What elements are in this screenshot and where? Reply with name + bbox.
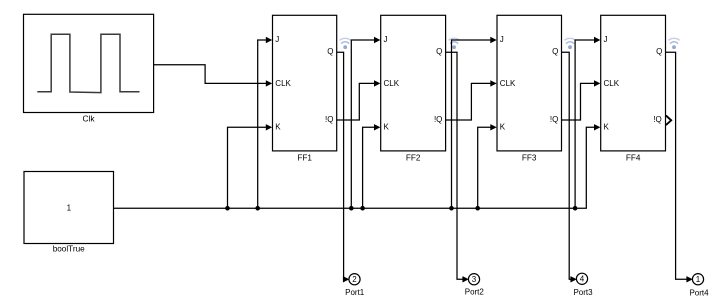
FF4 logging badge — [668, 38, 679, 49]
svg-text:CLK: CLK — [384, 79, 400, 88]
junction dot at x=227.5 — [225, 206, 230, 211]
svg-text:Q: Q — [327, 47, 333, 56]
arrowhead FF2.J — [374, 37, 380, 43]
wire bus tap to FF2.J — [351, 40, 374, 208]
junction dot at x=351.3 — [349, 206, 354, 211]
svg-text:Q: Q — [656, 47, 662, 56]
svg-text:J: J — [275, 35, 279, 44]
svg-text:Q: Q — [552, 47, 558, 56]
FF4 unconnected !Q port chevron — [666, 116, 671, 126]
wire bus tap to FF1.J — [258, 40, 267, 208]
svg-text:K: K — [384, 123, 390, 132]
arrowhead FF3.J — [490, 37, 496, 43]
junction dot at x=451.5 — [449, 206, 454, 211]
arrowhead Port3 — [570, 276, 576, 282]
wire FF1.!Q to FF2.CLK — [337, 83, 375, 120]
wire FF3.Q to Port3 — [562, 52, 571, 279]
wire FF3.!Q to FF4.CLK — [562, 83, 595, 120]
svg-text:FF4: FF4 — [626, 154, 641, 163]
svg-text:Q: Q — [436, 47, 442, 56]
svg-text:K: K — [604, 123, 610, 132]
arrowhead FF4.J — [594, 37, 600, 43]
svg-text:boolTrue: boolTrue — [53, 245, 85, 254]
wire bus tap to FF2.K — [363, 127, 375, 208]
svg-text:1: 1 — [67, 203, 72, 212]
junction dot at x=575.1 — [573, 206, 578, 211]
svg-text:K: K — [500, 123, 506, 132]
arrowhead FF1.J — [266, 37, 272, 43]
arrowhead FF2.K — [374, 124, 380, 130]
junction dot at x=477.7 — [475, 206, 480, 211]
junction dot at x=257.7 — [255, 206, 260, 211]
svg-text:CLK: CLK — [500, 79, 516, 88]
svg-text:K: K — [275, 123, 281, 132]
svg-text:Clk: Clk — [82, 114, 95, 124]
svg-text:1: 1 — [696, 275, 701, 284]
wire FF4.Q to Port4 — [666, 52, 687, 279]
FF3 logging badge — [564, 38, 575, 49]
svg-text:!Q: !Q — [550, 115, 558, 124]
wire bus tap to FF1.K — [228, 127, 267, 208]
arrowhead Port1 — [343, 276, 349, 282]
FF1 logging badge — [340, 38, 351, 49]
svg-text:J: J — [604, 35, 608, 44]
arrowhead Port2 — [462, 276, 468, 282]
svg-text:Port2: Port2 — [465, 288, 485, 297]
svg-text:!Q: !Q — [434, 115, 442, 124]
wire FF2.!Q to FF3.CLK — [446, 83, 491, 120]
svg-text:3: 3 — [472, 275, 477, 284]
FF2 logging badge — [449, 38, 460, 49]
svg-text:FF3: FF3 — [522, 154, 537, 163]
svg-text:CLK: CLK — [275, 79, 291, 88]
source block Clk (pulse generator) — [24, 14, 154, 112]
wire bus tap to FF4.J — [575, 40, 595, 208]
svg-text:CLK: CLK — [604, 79, 620, 88]
svg-text:FF2: FF2 — [406, 154, 421, 163]
wire bus tap to FF3.J — [452, 40, 491, 208]
svg-text:FF1: FF1 — [297, 154, 312, 163]
junction dot at x=362.6 — [360, 206, 365, 211]
arrowhead FF4.CLK — [594, 80, 600, 86]
svg-text:4: 4 — [580, 275, 585, 284]
flip-flop FF1 — [273, 15, 337, 151]
svg-text:J: J — [500, 35, 504, 44]
constant block boolTrue — [24, 172, 114, 244]
flip-flop FF3 — [497, 15, 562, 151]
arrowhead FF3.K — [490, 124, 496, 130]
svg-text:2: 2 — [352, 275, 357, 284]
output port Port2 — [468, 274, 479, 285]
arrowhead Port4 — [686, 276, 692, 282]
arrowhead FF2.CLK — [374, 80, 380, 86]
arrowhead FF4.K — [594, 124, 600, 130]
svg-text:J: J — [384, 35, 388, 44]
wire bus tap to FF3.K — [478, 127, 491, 208]
flip-flop FF4 — [601, 15, 666, 151]
wire boolTrue bus to FF4.K — [114, 127, 595, 208]
wire FF2.Q to Port2 — [446, 52, 463, 279]
wire FF1.Q to Port1 — [337, 52, 344, 279]
svg-text:!Q: !Q — [653, 115, 661, 124]
arrowhead FF1.K — [266, 124, 272, 130]
wire Clk to FF1.CLK — [154, 65, 267, 84]
svg-text:Port3: Port3 — [573, 288, 593, 297]
svg-text:Port4: Port4 — [689, 289, 709, 298]
output port Port1 — [349, 274, 360, 285]
svg-text:!Q: !Q — [325, 115, 333, 124]
output port Port3 — [576, 273, 587, 284]
arrowhead FF1.CLK — [266, 80, 272, 86]
flip-flop FF2 — [381, 15, 446, 151]
output port Port4 — [692, 274, 703, 285]
svg-text:Port1: Port1 — [345, 288, 365, 297]
arrowhead FF3.CLK — [490, 80, 496, 86]
Clk pulse waveform icon — [37, 34, 139, 92]
